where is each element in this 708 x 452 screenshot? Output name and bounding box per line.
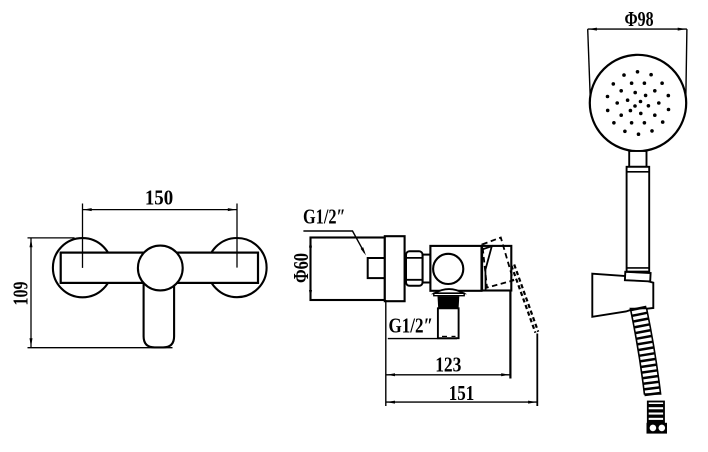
center extension lines into circles	[83, 253, 238, 268]
phi60 dimension arrows on escutcheon edge	[309, 239, 312, 248]
inlet connection rect	[368, 258, 385, 278]
outlet dome	[434, 289, 463, 293]
lever handle front	[144, 266, 175, 347]
outlet pipe	[438, 308, 459, 338]
dimension 150 line	[83, 204, 238, 268]
spray nozzle dots	[606, 70, 671, 136]
dimension 109 line	[28, 238, 173, 348]
cartridge body circle	[138, 246, 183, 291]
back plate	[385, 236, 405, 301]
lever dashed lines	[511, 266, 535, 333]
connector ring	[423, 255, 431, 283]
shower handle neck	[629, 151, 646, 167]
leader line to inlet	[303, 231, 364, 253]
svg-text:G1/2″: G1/2″	[303, 205, 346, 229]
handle collar on bracket	[625, 272, 651, 282]
hose ribbed	[630, 309, 660, 395]
ball joint circle	[433, 254, 463, 284]
escutcheon circle left	[53, 238, 112, 297]
extension lines bottom dims	[385, 300, 387, 406]
shower handle grip	[627, 167, 650, 272]
dimension phi98 line	[588, 29, 687, 100]
hose end connector ribbed	[648, 402, 664, 423]
handle cap side	[482, 246, 511, 291]
svg-text:Φ60: Φ60	[289, 253, 313, 283]
escutcheon circle right	[207, 238, 266, 297]
mixer bar body	[61, 253, 258, 283]
svg-text:G1/2″: G1/2″	[389, 314, 434, 338]
leader underline bottom	[388, 338, 457, 340]
handle rotated position dashed	[482, 238, 513, 288]
svg-text:Φ98: Φ98	[625, 7, 654, 31]
valve body	[430, 246, 481, 291]
svg-text:123: 123	[435, 353, 461, 377]
svg-text:151: 151	[449, 381, 475, 405]
wall bracket cone	[592, 274, 653, 317]
outlet thread black band	[438, 296, 460, 308]
svg-text:150: 150	[145, 186, 173, 210]
hose end nut	[647, 423, 668, 434]
hex nut	[406, 251, 423, 285]
wall escutcheon side view	[311, 238, 385, 301]
shower head face	[590, 55, 686, 151]
handle silhouette solid	[483, 246, 492, 289]
svg-text:109: 109	[8, 282, 32, 306]
